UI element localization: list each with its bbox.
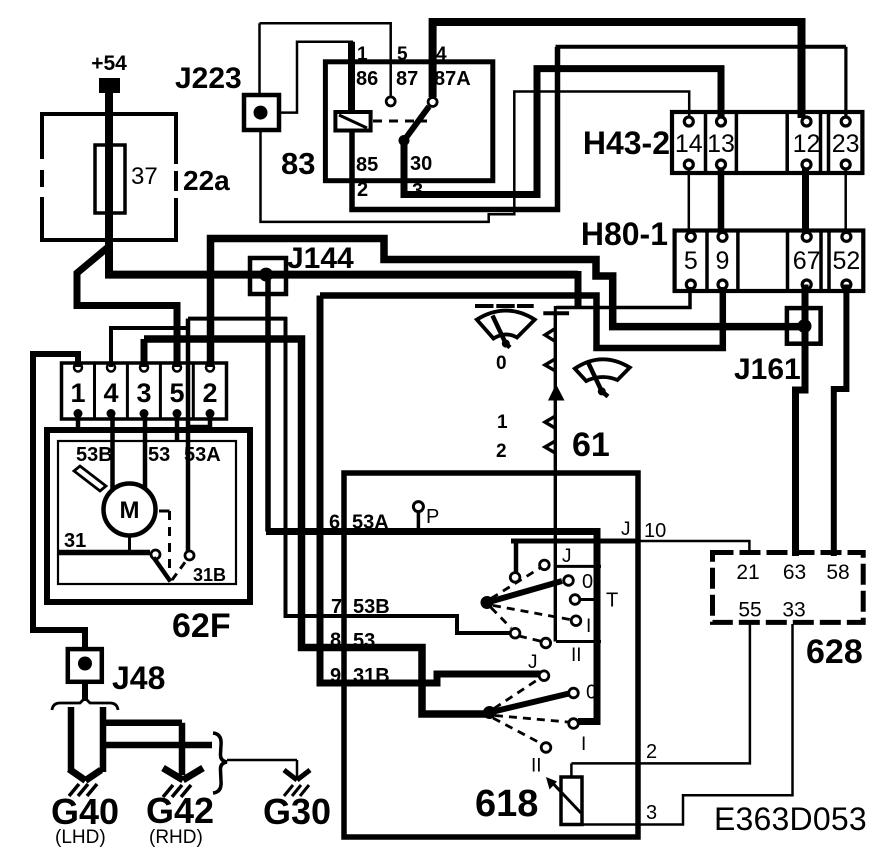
wire 86 bbox=[348, 42, 355, 112]
svg-text:J: J bbox=[562, 546, 572, 567]
svg-text:1: 1 bbox=[357, 44, 368, 65]
svg-text:37: 37 bbox=[131, 163, 158, 190]
wire J144 drop riser to pin6 bbox=[265, 280, 271, 532]
P contact bbox=[413, 502, 423, 512]
T contact stub bbox=[580, 598, 599, 601]
svg-text:10: 10 bbox=[644, 520, 666, 542]
wire 53B to motor bbox=[110, 415, 115, 490]
svg-text:4: 4 bbox=[436, 44, 447, 65]
ground G42 bbox=[163, 768, 203, 780]
wire 628 pin55 to 618 pin2 bbox=[571, 624, 750, 763]
svg-text:31B: 31B bbox=[193, 565, 226, 585]
wire 87A to H43 pin12 bbox=[433, 22, 802, 118]
motor crank arm bbox=[74, 466, 106, 491]
svg-text:0: 0 bbox=[496, 353, 507, 374]
svg-text:(LHD): (LHD) bbox=[55, 827, 106, 848]
thin wire top to 87 bbox=[260, 23, 391, 96]
wire 10 to 628 pin21 bbox=[636, 541, 749, 551]
svg-text:T: T bbox=[606, 590, 618, 612]
svg-text:53B: 53B bbox=[353, 596, 390, 618]
park lever bbox=[154, 558, 171, 582]
svg-text:52: 52 bbox=[832, 247, 860, 275]
svg-text:9: 9 bbox=[716, 247, 730, 275]
ground G30 bbox=[284, 770, 310, 780]
coil dashed link bbox=[373, 120, 427, 123]
wire 53A motor pin2 to J161 bbox=[211, 239, 802, 368]
svg-text:62F: 62F bbox=[172, 607, 231, 645]
coil slash bbox=[339, 115, 367, 128]
svg-text:53B: 53B bbox=[76, 444, 113, 466]
connector H43-2 bbox=[672, 112, 862, 173]
J144 connector bbox=[250, 258, 286, 294]
wiper B pivot dot bbox=[598, 387, 606, 395]
svg-text:21: 21 bbox=[736, 561, 759, 584]
svg-text:12: 12 bbox=[793, 130, 821, 158]
brace } bbox=[213, 733, 227, 793]
svg-text:G30: G30 bbox=[263, 791, 331, 832]
H43-2 pin circles bbox=[684, 117, 693, 126]
svg-text:53A: 53A bbox=[184, 444, 221, 466]
connector H80-1 bbox=[675, 231, 864, 292]
wire 31B riser to pin9 bbox=[320, 296, 540, 684]
switch unit 618 box bbox=[344, 473, 638, 837]
J-10 line bbox=[511, 539, 637, 544]
wire to G30 bbox=[227, 760, 297, 778]
svg-text:2: 2 bbox=[357, 179, 368, 201]
wire 31B to H80 pin9 bbox=[320, 287, 723, 348]
terminal +54 bbox=[99, 78, 120, 93]
motor connector pin dots bottom bbox=[74, 409, 83, 418]
svg-text:8: 8 bbox=[330, 630, 341, 652]
wire J144 feed bbox=[105, 271, 578, 279]
svg-text:6: 6 bbox=[329, 512, 340, 534]
svg-text:7: 7 bbox=[331, 596, 342, 618]
wire J48 down bbox=[82, 681, 88, 701]
wire to G42 and G40 right prong bbox=[103, 707, 182, 775]
wire pin3 stub bbox=[141, 339, 148, 367]
31 bar bbox=[58, 550, 150, 556]
wiper symbol B bbox=[575, 359, 630, 381]
svg-text:2: 2 bbox=[646, 741, 657, 763]
svg-text:67: 67 bbox=[793, 247, 821, 275]
upper switch dashed positions bbox=[491, 568, 540, 599]
wire to H80 pin5 bbox=[556, 287, 690, 308]
svg-text:II: II bbox=[571, 645, 582, 666]
thin wire J223 to 86 bbox=[279, 42, 353, 113]
wire H43 pin12 to H80 pin67 bbox=[802, 169, 809, 235]
cell lines bbox=[556, 565, 601, 568]
J223 junction dot bbox=[254, 106, 268, 120]
wire pin4 53B stub bbox=[111, 328, 188, 367]
svg-text:J: J bbox=[528, 652, 538, 673]
relay lever pivot dot bbox=[399, 135, 410, 146]
svg-text:J161: J161 bbox=[734, 353, 801, 386]
svg-text:33: 33 bbox=[782, 599, 805, 622]
lower switch pivot bbox=[483, 706, 496, 719]
thin wire left drop to J223 bbox=[258, 23, 261, 95]
svg-text:1: 1 bbox=[497, 412, 508, 433]
svg-text:53: 53 bbox=[353, 630, 375, 652]
wire park riser bbox=[186, 319, 191, 551]
park contact circles bbox=[151, 550, 160, 559]
svg-text:618: 618 bbox=[475, 783, 538, 825]
J wire drop bbox=[514, 541, 519, 572]
svg-text:1: 1 bbox=[70, 378, 85, 408]
svg-text:2: 2 bbox=[202, 378, 217, 408]
wire H80 pin67 to 628 pin63 bbox=[796, 285, 806, 557]
wire H43 pin14 to H80 pin5 bbox=[688, 169, 691, 235]
svg-text:5: 5 bbox=[169, 378, 184, 408]
wiper symbol A bbox=[477, 311, 535, 339]
wire H43 pin23 to H80 pin52 bbox=[844, 169, 847, 235]
wiper park dashes bbox=[475, 304, 534, 308]
svg-text:3: 3 bbox=[136, 378, 151, 408]
resistor arrow bbox=[548, 384, 565, 401]
fuse box 22a outline bbox=[40, 112, 176, 242]
resistor 61 line with taps bbox=[554, 315, 557, 642]
upper switch pivot bbox=[481, 596, 494, 609]
J161 junction dot bbox=[798, 319, 812, 333]
wire 628 pin33 to 618 pin3 bbox=[571, 624, 792, 825]
svg-text:I: I bbox=[581, 734, 586, 755]
svg-text:30: 30 bbox=[410, 153, 432, 175]
svg-text:61: 61 bbox=[572, 426, 610, 464]
upper switch contact circles bbox=[540, 560, 550, 570]
relay 83 box bbox=[325, 62, 492, 181]
wire pin5 stub bbox=[175, 415, 180, 441]
svg-text:H43-2: H43-2 bbox=[583, 125, 670, 161]
thin wire J223 to H43 pin14 bbox=[261, 92, 690, 222]
potentiometer bbox=[561, 777, 582, 825]
relay coil bbox=[335, 112, 370, 131]
wire J144 step down bbox=[575, 271, 582, 308]
svg-text:J: J bbox=[621, 519, 631, 540]
wire 53B link bbox=[188, 319, 287, 328]
svg-text:II: II bbox=[531, 756, 542, 777]
motor brush stub bbox=[128, 536, 131, 553]
H80-1 pin circles bbox=[686, 232, 695, 241]
svg-text:0: 0 bbox=[582, 571, 593, 593]
motor connector pin circles top bbox=[74, 364, 82, 372]
pin 87 circle bbox=[386, 97, 395, 106]
svg-text:53: 53 bbox=[148, 444, 170, 466]
wiper A pivot dot bbox=[502, 340, 510, 348]
svg-text:J144: J144 bbox=[287, 242, 354, 275]
wire 85 to H43 pin23 bbox=[352, 47, 558, 210]
svg-text:55: 55 bbox=[738, 599, 761, 622]
wire 30 to H43 pin13 bbox=[404, 69, 721, 195]
svg-text:2: 2 bbox=[496, 441, 507, 462]
svg-text:86: 86 bbox=[356, 68, 378, 90]
svg-text:628: 628 bbox=[806, 633, 863, 671]
svg-text:4: 4 bbox=[103, 378, 118, 408]
svg-text:I: I bbox=[586, 616, 591, 637]
svg-text:(RHD): (RHD) bbox=[149, 827, 203, 848]
svg-text:5: 5 bbox=[397, 44, 408, 65]
wire 53 to motor bbox=[143, 415, 148, 490]
J48 connector bbox=[68, 649, 102, 682]
motor M bbox=[104, 484, 156, 536]
wire +54 feed bbox=[105, 91, 113, 275]
fuse 37 bbox=[95, 145, 125, 213]
resistor 61 top bar bbox=[543, 311, 569, 315]
pin 87A circle bbox=[428, 98, 437, 107]
J223 connector bbox=[244, 95, 279, 130]
svg-text:3: 3 bbox=[646, 802, 657, 824]
svg-text:87: 87 bbox=[396, 68, 418, 90]
ground wire from pin1 to J48 bbox=[33, 354, 85, 651]
wire +54 branch to motor pin5 bbox=[77, 248, 177, 367]
svg-text:83: 83 bbox=[281, 146, 315, 181]
control unit 628 dashed box bbox=[713, 553, 864, 623]
ground G40 bbox=[69, 769, 101, 781]
upper switch J contact bbox=[510, 573, 520, 583]
relay lever bbox=[404, 107, 429, 141]
svg-text:P: P bbox=[426, 506, 439, 528]
svg-text:3: 3 bbox=[412, 180, 423, 202]
svg-text:87A: 87A bbox=[434, 68, 471, 90]
J161 connector bbox=[787, 308, 821, 344]
svg-text:+54: +54 bbox=[91, 52, 127, 75]
motor box 62F bbox=[47, 430, 250, 602]
svg-text:58: 58 bbox=[826, 561, 849, 584]
svg-text:E363D053: E363D053 bbox=[714, 801, 867, 837]
svg-text:0: 0 bbox=[586, 682, 597, 704]
svg-text:31: 31 bbox=[64, 530, 86, 552]
svg-text:53A: 53A bbox=[352, 512, 389, 534]
motor connector 62F plug bbox=[62, 363, 227, 419]
split bracket bbox=[52, 698, 118, 710]
svg-text:M: M bbox=[120, 497, 140, 524]
svg-text:22a: 22a bbox=[183, 165, 230, 196]
park dashed link bbox=[159, 510, 170, 513]
svg-text:63: 63 bbox=[783, 561, 806, 584]
svg-text:H80-1: H80-1 bbox=[581, 216, 668, 252]
svg-text:J48: J48 bbox=[112, 660, 165, 696]
svg-text:9: 9 bbox=[330, 665, 341, 687]
wire to G30 brace bbox=[103, 742, 212, 749]
svg-text:85: 85 bbox=[356, 154, 378, 176]
lower switch contact circles bbox=[539, 671, 549, 681]
lower switch dashed positions bbox=[494, 679, 540, 709]
wire pin1 bottom stub bbox=[76, 415, 81, 430]
J48 junction dot bbox=[78, 657, 92, 671]
svg-text:31B: 31B bbox=[353, 665, 390, 687]
wire 53 jumper and riser to pin8 bbox=[144, 339, 489, 714]
wire H80 pin52 to 628 pin58 bbox=[834, 285, 847, 557]
svg-text:13: 13 bbox=[707, 130, 735, 158]
wire to G40 left prong bbox=[68, 707, 75, 771]
svg-text:14: 14 bbox=[675, 130, 703, 158]
svg-text:G42: G42 bbox=[146, 790, 214, 831]
J144 junction dot bbox=[259, 268, 273, 282]
wire H43 pin13 to H80 pin9 bbox=[718, 169, 725, 235]
wire 53B riser to pin7 bbox=[286, 317, 512, 633]
svg-text:G40: G40 bbox=[51, 791, 119, 832]
svg-text:23: 23 bbox=[832, 130, 860, 158]
svg-text:J223: J223 bbox=[175, 62, 242, 95]
wire pin2 elbow bbox=[188, 415, 210, 427]
svg-text:5: 5 bbox=[684, 247, 698, 275]
